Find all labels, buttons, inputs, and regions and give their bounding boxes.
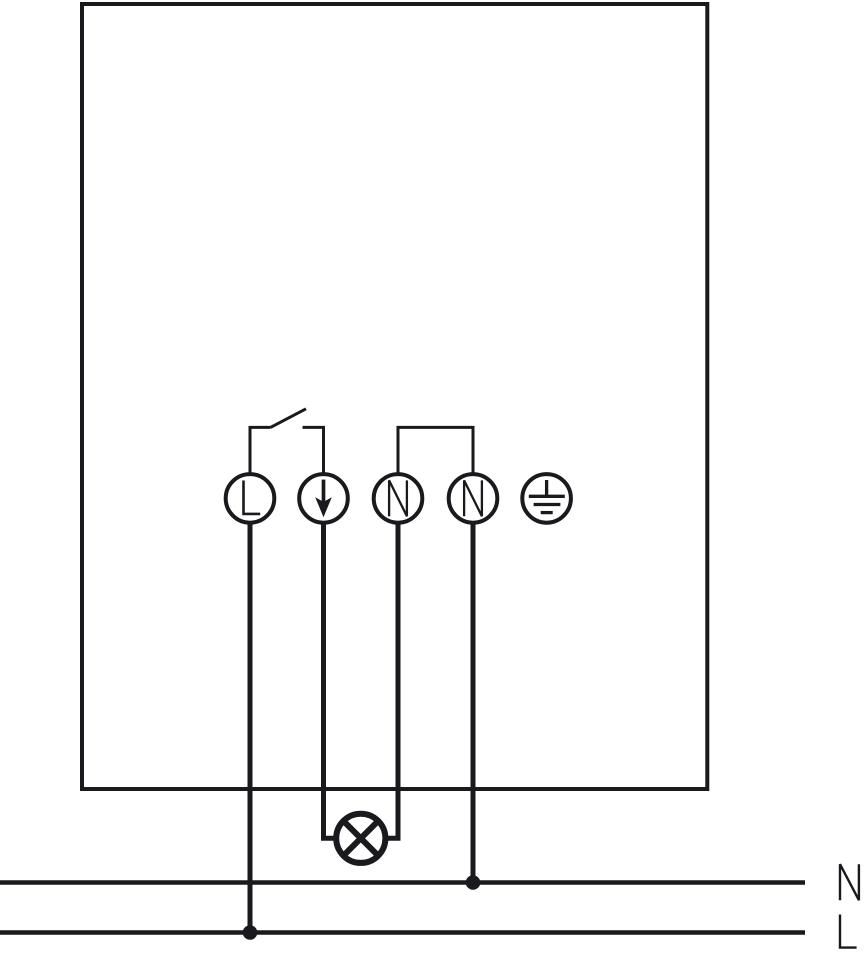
junction dot on L rail xyxy=(243,925,258,940)
terminal N2 xyxy=(449,474,498,523)
terminal L xyxy=(226,474,275,523)
terminal PE (protective earth) xyxy=(522,474,571,523)
terminal N1 xyxy=(374,474,423,523)
wire: N1 terminal down to lamp xyxy=(386,522,398,838)
wire: switch lead down to arrow terminal xyxy=(303,427,324,473)
wire: N2 terminal down to N rail xyxy=(471,522,476,883)
device enclosure box xyxy=(82,4,707,789)
switch S1 blade (open) xyxy=(271,409,307,428)
terminal arrow (switched output) xyxy=(299,474,348,523)
supply rail N xyxy=(0,880,805,885)
lamp cross stroke 2 xyxy=(344,821,378,855)
supply rail L xyxy=(0,930,805,935)
wire: switch lead from terminal L up and right xyxy=(250,427,271,473)
label L (rail) xyxy=(840,915,857,948)
junction dot on N rail xyxy=(466,875,481,890)
arrow symbol head xyxy=(315,497,332,517)
label N (terminal N1) xyxy=(389,480,407,516)
lamp E1 xyxy=(336,814,385,863)
wire: arrow terminal down to lamp xyxy=(324,522,337,838)
lamp cross stroke 1 xyxy=(344,821,378,855)
wire: bridge between N terminals xyxy=(398,427,473,473)
arrow symbol shaft xyxy=(322,480,326,504)
label L (terminal) xyxy=(244,481,261,514)
earth symbol xyxy=(529,480,565,513)
label N (terminal N2) xyxy=(464,480,482,516)
label N (rail) xyxy=(840,864,859,900)
wire: L terminal down to L rail xyxy=(248,522,253,933)
